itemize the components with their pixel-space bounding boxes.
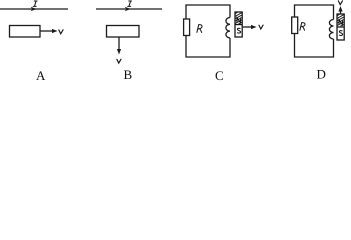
svg-text:B: B: [124, 67, 133, 82]
svg-text:A: A: [36, 68, 46, 83]
svg-text:C: C: [215, 68, 224, 83]
svg-text:D: D: [317, 67, 326, 82]
